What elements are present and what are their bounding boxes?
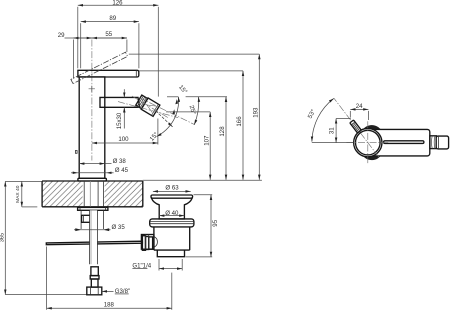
- hose collar: [90, 276, 99, 279]
- dim MAX40: [5, 181, 42, 207]
- crosshair centerlines: [334, 98, 389, 164]
- svg-text:107: 107: [203, 135, 210, 146]
- pop-up rod: [46, 241, 142, 245]
- vertical dim 166: [139, 71, 243, 180]
- drain cap: [151, 195, 193, 198]
- svg-text:29: 29: [58, 32, 65, 39]
- counter deck hatch right: [105, 181, 143, 207]
- svg-text:128: 128: [219, 126, 226, 137]
- svg-text:Ø 35: Ø 35: [112, 224, 126, 231]
- dim D40: [159, 210, 184, 217]
- svg-text:31: 31: [328, 127, 335, 134]
- svg-text:126: 126: [112, 0, 123, 6]
- dim 29 and 55: [58, 31, 127, 79]
- svg-text:95: 95: [212, 219, 219, 226]
- label G3/8: [102, 288, 130, 295]
- svg-text:MAX 40: MAX 40: [15, 185, 21, 203]
- base ring circles: [357, 125, 383, 159]
- dim 15x30: [116, 89, 124, 129]
- shank below deck: [81, 210, 103, 229]
- handle tip spool: [430, 136, 436, 149]
- drain body: [154, 227, 190, 257]
- supply tube: [90, 210, 98, 264]
- top view handle: [373, 129, 430, 156]
- svg-text:365: 365: [0, 233, 6, 242]
- top view body circle: [354, 128, 382, 156]
- dim 100: [92, 119, 158, 145]
- handle slot: [384, 141, 424, 144]
- arc 25deg: [188, 97, 199, 125]
- aerator assembly: [135, 94, 159, 116]
- dim 188: [47, 247, 172, 310]
- deck top reference line: [143, 179, 262, 181]
- dim 126 top: [78, 0, 159, 97]
- svg-text:166: 166: [236, 116, 243, 127]
- center cross: [89, 86, 95, 92]
- dim 365: [0, 181, 87, 294]
- drain side port: [141, 235, 154, 250]
- svg-text:Ø 63: Ø 63: [165, 185, 179, 192]
- svg-text:Ø 40: Ø 40: [165, 210, 179, 217]
- svg-text:25°: 25°: [188, 104, 198, 115]
- handle lever: [78, 70, 139, 77]
- inner circle: [356, 130, 381, 155]
- counter deck hatch left: [42, 181, 83, 207]
- dim 31: [312, 119, 354, 143]
- svg-text:24: 24: [356, 103, 363, 110]
- pull rod knob: [350, 120, 361, 133]
- body centerline: [91, 40, 93, 161]
- vertical dim 128: [167, 97, 227, 180]
- dim 95: [186, 195, 219, 257]
- svg-text:89: 89: [109, 15, 116, 22]
- counter deck outline: [42, 181, 143, 207]
- svg-text:15°: 15°: [148, 131, 160, 143]
- svg-text:53°: 53°: [307, 108, 318, 120]
- aerator axis centerline: [132, 96, 168, 118]
- side bump: [75, 151, 77, 154]
- phantom raised handle: [71, 52, 128, 83]
- arc 53deg: [307, 98, 334, 141]
- svg-text:15°: 15°: [177, 84, 189, 96]
- dim D35: [74, 224, 125, 231]
- svg-text:Ø 38: Ø 38: [113, 158, 127, 165]
- faucet body: [79, 77, 105, 178]
- arc 15deg upper and lower combined: [157, 84, 189, 137]
- vertical dim 193: [129, 54, 260, 180]
- flow arrow dashed: [156, 111, 173, 127]
- svg-text:193: 193: [252, 107, 259, 118]
- hose narrow: [91, 279, 98, 287]
- hose segment 2: [91, 267, 98, 276]
- drain ring: [150, 219, 194, 227]
- svg-text:100: 100: [118, 136, 129, 143]
- label G1 1/4: [132, 259, 182, 271]
- svg-text:Ø 45: Ø 45: [115, 167, 129, 174]
- washer below deck: [78, 207, 108, 210]
- mounting nut: [82, 215, 91, 222]
- drain funnel: [152, 198, 193, 219]
- dim 89: [81, 15, 139, 68]
- spout axis centerline 15deg: [118, 102, 178, 118]
- dim D45: [71, 167, 129, 174]
- dim D38: [79, 158, 126, 165]
- dim 24: [350, 103, 368, 120]
- svg-text:188: 188: [104, 301, 115, 308]
- svg-text:55: 55: [105, 31, 112, 38]
- spout box: [100, 97, 140, 107]
- base flange: [78, 178, 107, 181]
- rod linkage: [142, 236, 152, 251]
- svg-text:15x30: 15x30: [116, 112, 123, 129]
- vertical dim 107: [166, 112, 210, 180]
- shank lines through deck: [84, 181, 103, 207]
- hose nut G3/8: [87, 287, 102, 295]
- drain flange dim D63: [153, 185, 191, 192]
- tip aerator cylinder: [436, 136, 448, 149]
- 25deg ray: [139, 98, 195, 125]
